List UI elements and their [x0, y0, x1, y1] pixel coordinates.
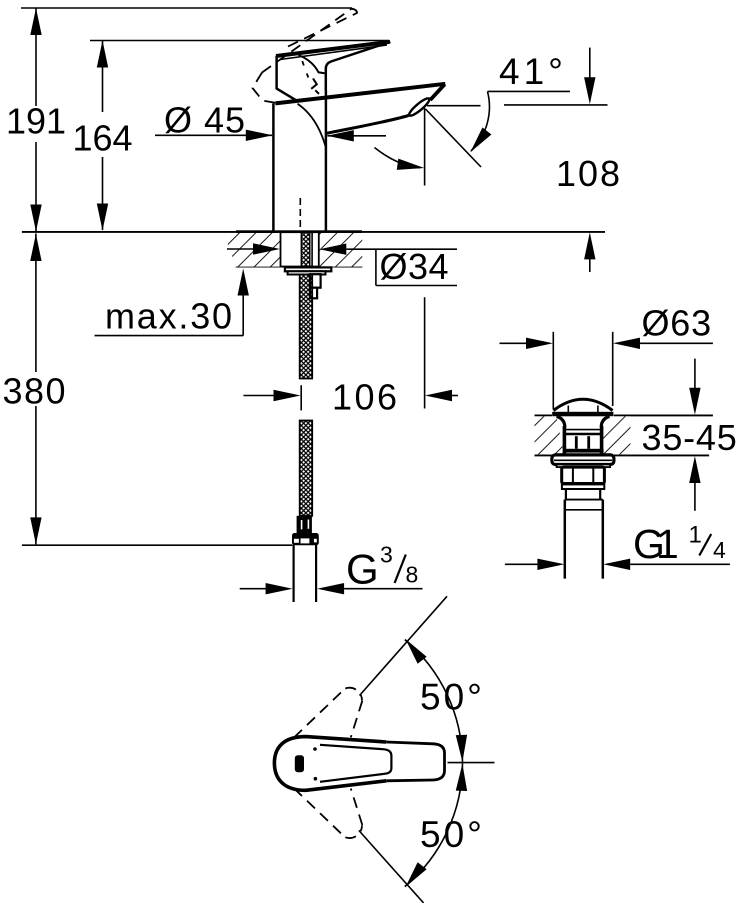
node dimension 106 [243, 376, 458, 417]
svg-text:8: 8 [406, 562, 419, 588]
svg-text:Ø34: Ø34 [380, 246, 450, 287]
svg-text:4: 4 [713, 537, 726, 563]
wire center line right of handle [448, 762, 495, 764]
node dimension 164 [73, 41, 133, 231]
wire top reference line (handle raised height) [21, 7, 352, 9]
svg-text:3: 3 [380, 542, 393, 568]
svg-text:380: 380 [3, 371, 68, 412]
counter bottom line [236, 266, 363, 268]
node dimension 380 [3, 234, 68, 545]
node dimension D34 [227, 243, 457, 287]
wire second reference line (handle height 164) [90, 40, 389, 42]
faucet flexible hose lower segment [300, 421, 313, 516]
faucet body [273, 84, 445, 231]
faucet lever solid [276, 42, 390, 101]
drain flange under basin [552, 455, 614, 467]
wire mounting hole edges [280, 233, 282, 267]
svg-text:106: 106 [332, 376, 400, 417]
handle dashed rotated up [294, 688, 362, 738]
basin hatching right [602, 416, 631, 454]
counter hatching left of hole [224, 233, 281, 267]
drain body neck [557, 416, 610, 453]
node spray angle arc [375, 148, 426, 174]
node dimension 35-45 [642, 359, 738, 511]
node dimension 191 [6, 8, 66, 232]
node dimension D45 [155, 100, 386, 142]
node angle 50deg lower [359, 763, 485, 903]
handle dot lower [314, 777, 318, 781]
handle blade outline [386, 742, 444, 781]
svg-text:1: 1 [656, 521, 679, 567]
faucet base thick seat [236, 230, 362, 233]
node dimension max.30 [95, 269, 249, 337]
svg-text:1: 1 [689, 521, 702, 548]
node dimension D63 [500, 303, 713, 410]
faucet fixing washer and nut [285, 267, 331, 298]
wire outlet vertical extension [424, 108, 426, 186]
drain fixing nut [562, 467, 605, 483]
handle indicator bar [295, 755, 304, 772]
basin top surface line [535, 414, 553, 416]
faucet flexible hose upper segment [300, 275, 313, 379]
handle dashed rotated down [294, 788, 362, 838]
svg-text:108: 108 [556, 153, 622, 194]
faucet hose ferrule [297, 516, 312, 533]
svg-text:35-45: 35-45 [642, 417, 738, 458]
wire hose end reference line [22, 544, 292, 546]
basin hatching left [535, 416, 565, 454]
wire spout outlet horizontal reference [427, 105, 481, 107]
handle blade inner plateau [320, 745, 391, 782]
node angle 50deg upper [360, 596, 485, 762]
wire outlet normal diagonal [426, 109, 482, 167]
svg-text:41°: 41° [499, 51, 567, 92]
faucet lever dashed raised position [253, 9, 358, 104]
svg-text:191: 191 [6, 101, 66, 142]
drain pop-up cap [552, 399, 613, 416]
handle bulb outline [274, 737, 386, 791]
handle dot upper [313, 747, 317, 751]
basin bottom line [535, 454, 552, 456]
svg-text:164: 164 [73, 118, 133, 159]
drain tailpipe [565, 489, 603, 579]
svg-text:50°: 50° [420, 814, 485, 855]
faucet hose nut G3/8 [292, 533, 319, 545]
svg-text:Ø63: Ø63 [642, 303, 712, 344]
faucet connection tube [294, 545, 317, 602]
faucet threaded shank [301, 232, 312, 274]
counter top line [22, 231, 605, 233]
node dimension 41deg [466, 51, 570, 156]
svg-text:G: G [346, 546, 379, 593]
svg-text:max.30: max.30 [105, 295, 234, 336]
svg-text:50°: 50° [420, 676, 485, 717]
counter hatching right of hole [319, 233, 363, 267]
svg-text:Ø 45: Ø 45 [164, 100, 246, 141]
drain washer ring [562, 484, 604, 489]
node dimension G3/8 [240, 542, 423, 595]
node dimension G1 1/4 [505, 521, 730, 570]
node dimension 108 [556, 48, 622, 272]
